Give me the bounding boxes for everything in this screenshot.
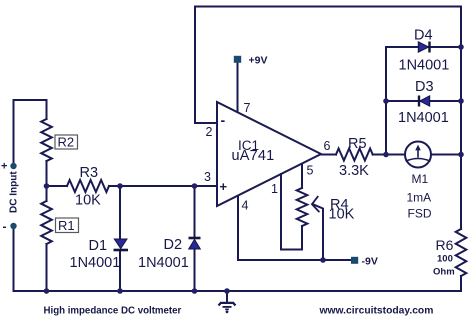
wire bottom ground rail (14, 290, 462, 292)
resistor R6 (456, 229, 467, 276)
svg-text:R1: R1 (58, 218, 75, 233)
svg-text:-: - (221, 112, 226, 128)
svg-text:3: 3 (204, 170, 211, 184)
diode D1 (pointing down) (114, 239, 129, 250)
junction D2 bottom rail (192, 288, 198, 294)
wire pin 4 down (237, 196, 239, 260)
wire diode bridge left vertical (385, 47, 387, 155)
junction R1 bottom rail (44, 288, 50, 294)
wire R5 to meter M1 (373, 154, 405, 156)
wire DC+ terminal to top-left corner to R2 top (14, 100, 47, 166)
wire pin 7 to +9V (237, 62, 239, 112)
junction bridge left D3 (383, 98, 389, 104)
wire right vertical rail top (460, 7, 462, 48)
svg-text:www.circuitstoday.com: www.circuitstoday.com (319, 306, 434, 317)
junction right rail D4 (458, 44, 464, 50)
junction node A (R1-R2-R3) (44, 183, 50, 189)
resistor R1 (41, 201, 52, 244)
meter M1 (405, 142, 431, 168)
diode D4 (pointing right) (418, 42, 429, 53)
svg-text:D1: D1 (89, 238, 108, 254)
DC input + terminal (10, 163, 16, 169)
wire R3 right to op-amp pin 3 (109, 185, 216, 187)
wire -9V rail (238, 259, 351, 261)
ground stem (226, 291, 228, 302)
resistor R3 (67, 180, 109, 192)
svg-text:1N4001: 1N4001 (399, 58, 450, 74)
wire R6 bottom to rail corner (460, 276, 462, 291)
svg-text:M1: M1 (412, 172, 429, 186)
svg-text:1: 1 (271, 182, 278, 196)
wire D2 anode lead (194, 249, 196, 291)
junction right rail D3 (458, 98, 464, 104)
svg-text:R2: R2 (58, 135, 75, 150)
svg-text:+9V: +9V (249, 55, 268, 67)
wire D1 cathode lead (119, 251, 121, 292)
op-amp U1 triangle (217, 102, 321, 206)
resistor R5 (336, 149, 373, 161)
svg-text:+: + (220, 179, 228, 194)
svg-text:D3: D3 (415, 79, 434, 95)
wire D4 branch (386, 46, 461, 48)
svg-text:R3: R3 (80, 165, 99, 181)
junction D1 top (117, 183, 123, 189)
wire op-amp pin 2 to feedback loop (195, 7, 217, 124)
svg-text:6: 6 (324, 139, 331, 153)
wire R2 bottom to node A (46, 161, 48, 186)
wire DC- terminal to bottom rail (13, 226, 15, 291)
junction right rail meter (458, 152, 464, 158)
svg-text:Ohm: Ohm (433, 267, 455, 278)
R1 label box (56, 218, 79, 233)
wire op-amp output pin 6 to R5 (321, 154, 336, 156)
wire pin 1 to R4 bottom (281, 174, 302, 250)
wire top feedback rail (195, 6, 461, 8)
+9V supply square (234, 56, 241, 63)
svg-text:D4: D4 (414, 28, 433, 44)
svg-text:R6: R6 (436, 237, 454, 253)
-9V supply square (351, 257, 358, 264)
junction bridge left meter wire (383, 152, 389, 158)
svg-text:R5: R5 (348, 136, 367, 152)
R4 wiper arrowhead (open) (312, 197, 319, 212)
svg-text:1N4001: 1N4001 (70, 255, 121, 271)
diode D2 (pointing up) (189, 238, 201, 249)
wire pin 5 to R4 top (301, 164, 303, 188)
junction D1 bottom rail (117, 288, 123, 294)
wire R4 wiper to -9V rail (313, 204, 323, 260)
wire D1 anode lead (119, 186, 121, 239)
DC input - terminal (10, 223, 16, 229)
junction D2 top (192, 183, 198, 189)
svg-text:+: + (1, 161, 7, 173)
svg-text:uA741: uA741 (232, 148, 275, 164)
wire R1 bottom to ground rail (46, 244, 48, 291)
R2 label box (55, 135, 78, 150)
svg-text:10K: 10K (75, 193, 101, 209)
junction R4 wiper on -9V rail (320, 257, 326, 263)
svg-text:10K: 10K (329, 207, 355, 223)
svg-text:5: 5 (307, 164, 314, 178)
svg-text:-9V: -9V (362, 256, 378, 268)
wire node A to R3 (47, 185, 68, 187)
svg-text:4: 4 (242, 199, 249, 213)
svg-text:High impedance DC voltmeter: High impedance DC voltmeter (44, 306, 182, 317)
svg-text:1mA: 1mA (407, 191, 432, 205)
wire D2 cathode lead (194, 186, 196, 238)
svg-text:DC Input: DC Input (9, 171, 20, 213)
resistor R2 (41, 119, 52, 161)
svg-text:1N4001: 1N4001 (138, 255, 189, 271)
ground symbol (219, 303, 236, 313)
junction ground rail (224, 288, 230, 294)
wire D3 branch (386, 100, 461, 102)
wire node A to R1 top (46, 186, 48, 201)
svg-text:3.3K: 3.3K (339, 163, 369, 179)
diode D3 (pointing left) (419, 96, 430, 107)
svg-text:1N4001: 1N4001 (398, 110, 449, 126)
resistor R4 (preset) (297, 188, 308, 226)
svg-text:-: - (3, 220, 7, 234)
svg-text:2: 2 (206, 125, 213, 139)
svg-text:D2: D2 (164, 237, 183, 253)
wire meter to right rail (431, 154, 461, 156)
svg-text:7: 7 (244, 101, 251, 115)
svg-text:FSD: FSD (408, 207, 432, 221)
svg-text:100: 100 (437, 254, 453, 265)
wire right rail middle (460, 47, 462, 229)
